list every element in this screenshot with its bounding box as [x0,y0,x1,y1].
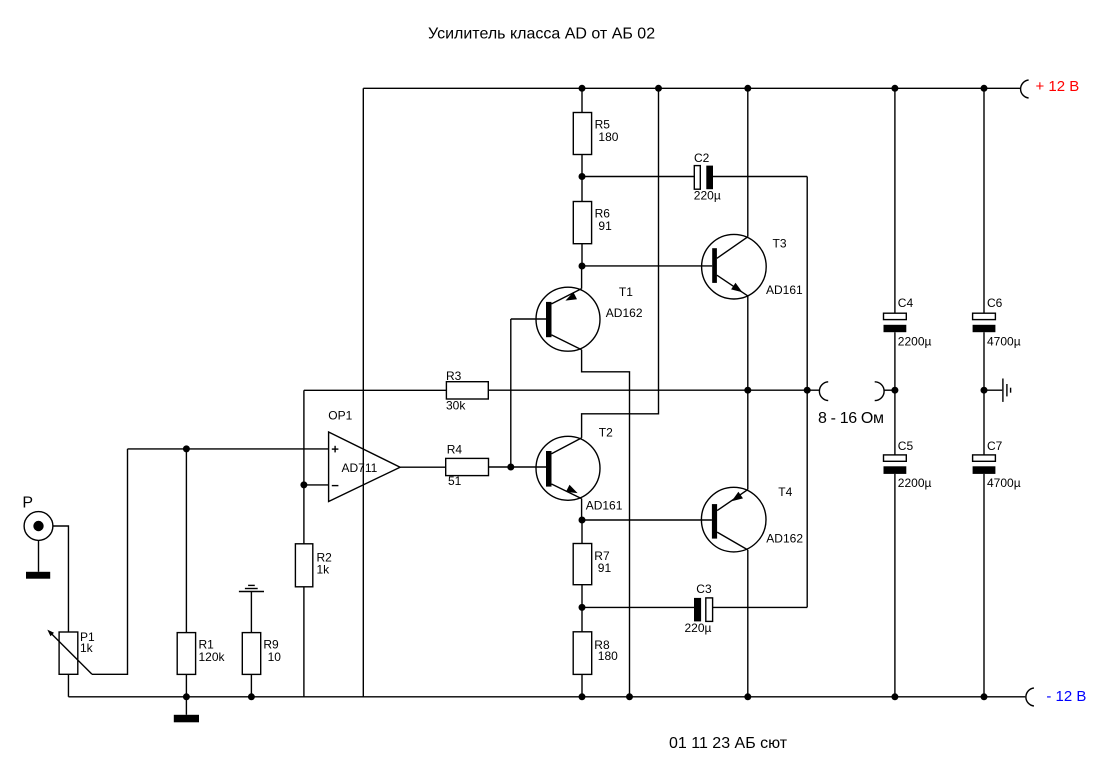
node junction T2 emitter [579,517,586,524]
svg-text:1k: 1k [80,641,94,655]
node junction R5 rail [579,85,586,92]
transistor T3 emitter [717,275,748,296]
node junction C6 rail [981,85,988,92]
wire T4 base row [582,519,712,521]
transistor T3 collector [717,237,748,258]
ground earth symbol above R9 [248,584,255,586]
svg-text:180: 180 [598,649,618,663]
wire jack right to C4 node [884,389,895,391]
wire T3 emitter to output row [747,296,749,390]
resistor R8 [573,632,592,675]
svg-text:R4: R4 [447,443,463,457]
wire P1 wiper to +input column [92,449,128,674]
wire R1 bottom [185,674,187,696]
op-amp OP1 triangle [329,432,401,502]
svg-text:P: P [22,495,33,512]
ground chassis bar under jack [26,572,50,579]
op-amp minus sign [332,485,339,487]
svg-text:C5: C5 [898,439,914,453]
svg-text:Усилитель класса AD от АБ 02: Усилитель класса AD от АБ 02 [428,25,655,42]
capacitor C5 [884,455,907,461]
svg-text:220µ: 220µ [694,189,721,203]
transistor T1 collector [552,335,582,350]
wire C6 bottom [983,332,985,390]
ground bar main [185,697,187,715]
wire R2 bottom to rail [303,587,305,697]
node junction T3/T4 emitters output [744,387,751,394]
transistor T3 base bar [712,248,717,283]
wire jack to ground bar [38,540,40,571]
transistor T1 base bar [546,302,552,337]
wire R9 bottom [250,674,252,696]
svg-text:10: 10 [268,650,282,664]
node junction T3 collector rail [744,85,751,92]
wire R5 top [581,88,583,112]
connector P input jack [24,512,53,541]
node junction T2 collector rail [655,85,662,92]
svg-text:8 - 16 Ом: 8 - 16 Ом [818,410,884,427]
svg-text:R3: R3 [446,369,462,383]
wire feedback vertical R3 to -input [303,390,305,485]
wire jack to P1 top [53,526,69,632]
transistor T2 emitter [552,484,582,499]
wire +12V top rail [363,87,1020,89]
transistor T2 base bar [546,451,552,487]
wire T3 collector to +12 rail [747,88,749,237]
svg-text:120k: 120k [199,650,226,664]
capacitor C6 [973,313,996,319]
wire C5 top [894,390,896,455]
wire earth to R9 [250,592,252,633]
wire left vertical from top rail to bottom rail [362,88,364,697]
svg-text:C7: C7 [987,439,1003,453]
svg-text:4700µ: 4700µ [987,476,1021,490]
wire op-amp output [400,466,446,468]
svg-text:30k: 30k [446,398,466,412]
terminal +12V connector arc [1021,80,1029,98]
wire C4 bottom [894,332,896,390]
wire C5 bottom [894,474,896,697]
resistor R1 [177,633,195,675]
wire R2 top [303,485,305,544]
transistor T4 circle [701,487,766,552]
transistor T2 collector [552,438,582,454]
wire bootstrap vertical C2/C3 [806,177,808,608]
wire C6 top [983,88,985,313]
transistor T1 emitter [552,289,582,304]
wire R3 left [304,389,447,391]
wire -12V bottom rail [68,696,1025,698]
terminal -12V connector arc [1026,688,1034,706]
transistor T3 circle [702,234,767,299]
wire -input row [304,484,329,486]
ground symbol right [984,389,1002,391]
svg-text:AD162: AD162 [766,532,803,546]
svg-text:- 12 В: - 12 В [1046,688,1086,705]
svg-text:C4: C4 [898,296,914,310]
op-amp plus sign [332,448,339,450]
svg-text:51: 51 [448,474,462,488]
svg-text:T3: T3 [773,236,787,250]
wire T1 base row [511,318,546,320]
svg-text:AD161: AD161 [766,283,803,297]
node junction R5/R6/C2 [579,173,586,180]
wire T2 collector to +12 rail [582,88,659,438]
wire T1 emitter up [581,266,583,289]
node junction R7/R8/C3 [579,604,586,611]
wire C4 top [894,88,896,313]
resistor R3 [446,382,488,399]
node junction R1/rail [183,693,190,700]
wire C2 row left [582,176,694,178]
wire R6 top [581,177,583,202]
node junction C6/C7/ground [981,387,988,394]
capacitor C3 [694,598,701,622]
svg-text:180: 180 [598,130,618,144]
capacitor C4 [884,313,907,319]
wire C3 row left [582,606,694,608]
node junction bootstrap/output [804,387,811,394]
wire output row R3 to speaker [488,389,819,391]
svg-text:T4: T4 [778,485,792,499]
wire R6 bottom [581,244,583,266]
svg-text:+ 12 В: + 12 В [1036,78,1080,95]
capacitor C2 [694,166,700,190]
node junction R6/T3 base/T1 emitter [579,263,586,270]
wire op-amp +input row [128,448,329,450]
svg-text:01 11 23 АБ сют: 01 11 23 АБ сют [669,735,788,752]
wire T3 base row [582,265,712,267]
node junction C7 rail [981,693,988,700]
svg-text:T1: T1 [619,285,633,299]
wire T1 collector to -12 rail [582,350,630,697]
node junction -input/R2 [300,481,307,488]
connector speaker jack left [819,382,828,401]
wire T4 emitter to output row [747,390,749,489]
transistor T1 circle [536,287,600,351]
potentiometer P1 wiper arrow [50,632,93,675]
svg-text:91: 91 [598,561,612,575]
wire C7 top [983,390,985,455]
transistor T4 collector [717,532,748,550]
resistor R5 [573,113,591,155]
wire R1 top [185,449,187,633]
svg-text:AD711: AD711 [342,461,378,475]
resistor R6 [573,202,591,244]
node junction R8 rail [579,693,586,700]
wire P1 bottom to rail [67,674,69,697]
wire C3 row right [713,606,808,608]
svg-text:AD161: AD161 [586,499,623,513]
transistor T4 base bar [712,504,717,538]
wire R8 top [581,607,583,631]
resistor R9 [242,633,260,675]
node junction R4 output [507,464,514,471]
svg-text:1k: 1k [317,563,331,577]
svg-text:C2: C2 [694,151,710,165]
resistor R4 [446,458,489,475]
svg-text:2200µ: 2200µ [898,476,932,490]
node junction +input/R1 [183,445,190,452]
wire C7 bottom [983,474,985,697]
node junction T1 collector rail [626,693,633,700]
wire T4 collector to -12 rail [747,550,749,697]
wire C2 row right [713,176,807,178]
wire T2 emitter down [581,499,583,520]
svg-text:220µ: 220µ [685,621,712,635]
svg-text:OP1: OP1 [328,409,352,423]
wire T1 base vertical [510,319,512,467]
wire R5 bottom [581,155,583,177]
node junction R9/rail [248,693,255,700]
svg-text:T2: T2 [599,426,613,440]
wire R7 top [581,520,583,544]
capacitor C7 [973,455,996,461]
svg-text:91: 91 [598,219,612,233]
node junction C5 rail [891,693,898,700]
wire R7 bottom [581,585,583,608]
resistor R2 [295,544,312,587]
svg-text:2200µ: 2200µ [898,334,932,348]
svg-text:C6: C6 [987,296,1003,310]
connector speaker jack right [875,382,884,401]
node junction C4 rail [891,85,898,92]
node junction C4/C5 [891,387,898,394]
resistor R7 [573,544,592,585]
wire R4 to T2 base [489,466,547,468]
svg-text:C3: C3 [696,582,712,596]
svg-text:4700µ: 4700µ [987,334,1021,348]
transistor T2 circle [536,436,600,500]
svg-text:AD162: AD162 [606,306,643,320]
transistor T4 emitter [717,490,748,511]
node junction T4 collector rail [744,693,751,700]
potentiometer P1 body [59,632,78,674]
wire R8 bottom [581,674,583,696]
